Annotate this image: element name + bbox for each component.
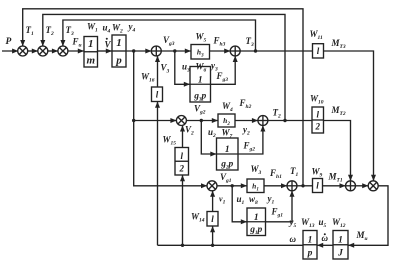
wire u2 drop to W7 bbox=[201, 121, 216, 155]
summing junction A2 (input x T2) bbox=[38, 46, 48, 56]
svg-text:1: 1 bbox=[198, 76, 203, 86]
node T3 feedback bbox=[254, 49, 257, 52]
wire F_g1 to T1 bbox=[266, 191, 293, 222]
svg-text:1: 1 bbox=[308, 235, 313, 245]
svg-text:1: 1 bbox=[116, 37, 122, 49]
wire Vg3-W5 (u3) bbox=[161, 50, 191, 52]
wire u1 drop to W8 bbox=[232, 186, 247, 222]
wire W11-M_T3 down to Qx bbox=[324, 51, 374, 181]
wire Q2 to M_u corner bbox=[348, 186, 388, 246]
block W9 (l) bbox=[313, 179, 323, 193]
svg-text:m: m bbox=[86, 55, 95, 67]
wire bus riser to W14 bbox=[212, 226, 214, 245]
node bus-W14 bbox=[211, 244, 214, 247]
junction Q2 (x) bbox=[368, 181, 378, 191]
block W6 (1/g3p) bbox=[190, 67, 211, 103]
wire W2-Vg3 junction bbox=[126, 50, 152, 52]
block W10 (l/2) bbox=[312, 107, 324, 133]
wire A3-W1 (F_u) bbox=[68, 50, 84, 52]
wire W1-W2 (v dot) bbox=[98, 50, 113, 52]
block W8 (1/g1p) bbox=[247, 208, 266, 236]
junction Vg2 (x) bbox=[176, 116, 186, 126]
block W11 (l) bbox=[313, 44, 324, 58]
wire T1 output to W9 bbox=[297, 185, 313, 187]
wire W9-Q1 (M_T1) bbox=[323, 185, 346, 187]
block W12 (1/J) bbox=[333, 231, 348, 260]
block W16 (l) bbox=[152, 87, 163, 102]
wire T2 output to W10 bbox=[268, 120, 312, 122]
wire T3 output to W11 bbox=[240, 50, 313, 52]
wire Vg2-W4 (u2) bbox=[186, 120, 218, 122]
wire: input P bbox=[2, 50, 18, 52]
svg-text:ω: ω bbox=[290, 234, 297, 244]
wire A2-A3 bbox=[48, 50, 59, 52]
wire W10-M_T2 down to Q1 bbox=[324, 121, 351, 182]
wire u3 drop to W6 bbox=[175, 51, 190, 84]
node bus-W15 bbox=[181, 244, 184, 247]
junction T3 (+) bbox=[230, 46, 240, 56]
node T2 feedback bbox=[283, 119, 286, 122]
wire F_g3 to T3 bbox=[211, 56, 236, 85]
wire W5-T3 (F_h3) bbox=[210, 50, 231, 52]
wire bus riser to W15 bbox=[182, 175, 184, 245]
node y4 bbox=[132, 49, 135, 52]
block W13 (1/p) bbox=[303, 231, 317, 260]
junction Vg1 (x) bbox=[207, 181, 217, 191]
block W3 (h1) bbox=[247, 179, 264, 193]
summing junction A1 (input x T1) bbox=[18, 46, 28, 56]
svg-text:1: 1 bbox=[225, 145, 230, 155]
junction T1 (+) bbox=[287, 181, 297, 191]
block W7 (1/g2p) bbox=[217, 138, 239, 170]
wire T1 feedback riser bbox=[23, 9, 303, 186]
svg-text:2: 2 bbox=[315, 122, 321, 132]
wire A1-A2 bbox=[28, 50, 39, 52]
svg-text:2: 2 bbox=[179, 164, 185, 174]
junction Q1 (+) bbox=[346, 181, 356, 191]
wire y4 to Vg2 bbox=[134, 120, 177, 122]
svg-text:1: 1 bbox=[254, 213, 259, 223]
node u2 bbox=[200, 119, 203, 122]
wire W12-W13 (omega dot) bbox=[317, 244, 333, 246]
svg-text:V: V bbox=[105, 40, 112, 50]
node u3 bbox=[173, 49, 176, 52]
wire y4 drop bbox=[134, 51, 208, 186]
wire omega bus bbox=[158, 244, 304, 246]
wire F_g2 to T2 bbox=[238, 125, 263, 154]
node T1 feedback bbox=[301, 184, 304, 187]
block W5 (h3) bbox=[191, 45, 210, 60]
block W15 (l/2) bbox=[175, 148, 189, 176]
wire T3 feedback riser bbox=[63, 20, 256, 51]
wire T2 feedback riser bbox=[43, 14, 285, 120]
svg-text:P: P bbox=[6, 37, 12, 47]
junction T2 (+) bbox=[258, 116, 268, 126]
wire Q1-Q2 bbox=[355, 185, 368, 187]
wire W14 to Vg1 (v1) bbox=[212, 191, 214, 212]
wire W15 to Vg2 (V2) bbox=[182, 125, 184, 147]
wire W4-T2 (F_h2) bbox=[235, 120, 258, 122]
svg-text:p: p bbox=[307, 249, 313, 259]
block W1 (1/m) bbox=[84, 37, 98, 68]
svg-text:1: 1 bbox=[88, 38, 94, 50]
summing junction A3 (input x T3) bbox=[58, 46, 68, 56]
wire W3-T1 (F_h1) bbox=[264, 185, 287, 187]
wire Vg1-W3 (u1) bbox=[217, 185, 247, 187]
block W4 (h2) bbox=[218, 114, 235, 127]
svg-text:J: J bbox=[337, 249, 343, 259]
wire bus riser to W16 bbox=[157, 102, 159, 246]
wire W16 to Vg3 (V3) bbox=[157, 56, 159, 87]
svg-text:p: p bbox=[115, 55, 122, 67]
node y4-row2 bbox=[132, 119, 135, 122]
node u1 bbox=[231, 184, 234, 187]
svg-text:1: 1 bbox=[338, 235, 343, 245]
block W14 (l) bbox=[207, 212, 218, 227]
junction Vg3 (+) bbox=[151, 46, 161, 56]
block W2 (1/p) bbox=[112, 35, 126, 67]
